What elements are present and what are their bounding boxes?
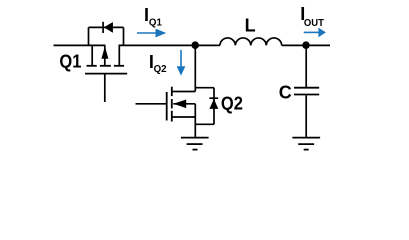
transistor Q2 (N-channel low-side MOSFET): [136, 87, 196, 137]
wire: right riser to drain rail: [123, 27, 125, 45]
C top plate: [294, 87, 319, 89]
svg-text:C: C: [279, 83, 292, 103]
Q2 drain connection: [172, 91, 196, 93]
wire: diode branch top: [89, 26, 124, 28]
Q2 channel bar (body): [171, 99, 173, 108]
body diode of Q2: [195, 88, 218, 125]
Q1 body lead: [104, 45, 106, 65]
Q2 gate lead: [136, 103, 167, 105]
wire: Q2 drain lead up to switch node: [194, 45, 196, 91]
node: switch-node junction dot: [191, 41, 199, 49]
wire: output node down to top plate: [305, 45, 307, 87]
transistor Q1 (P-channel high-side MOSFET, drawn horizontally): [85, 45, 127, 102]
Q1 channel bar (drain): [114, 65, 124, 67]
label IQ1: [144, 5, 162, 29]
diode cathode bar: [102, 22, 104, 33]
label IOUT: [300, 4, 324, 29]
svg-text:Q2: Q2: [154, 63, 167, 75]
Q1 source stub: [91, 45, 93, 65]
wire: bottom plate to ground: [305, 95, 307, 136]
svg-text:Q2: Q2: [221, 93, 243, 113]
inductor L: [220, 38, 282, 45]
C bottom plate: [294, 94, 319, 96]
Q1 body arrow (points up, P-channel): [101, 46, 108, 58]
Q2 channel bar (source): [171, 111, 173, 122]
ground (output capacitor): [292, 138, 320, 150]
body diode of Q1: [89, 22, 124, 46]
wire: switch-node rail from Q1 drain to inductor: [119, 44, 220, 46]
diode cathode bar: [209, 97, 218, 99]
diode triangle (points left): [104, 22, 113, 33]
Q2 gate bar: [166, 92, 168, 121]
Q2 body arrow (points into channel, N-channel): [173, 100, 186, 109]
label IQ2: [149, 52, 167, 75]
Q2 channel bar (drain): [171, 87, 173, 96]
diode triangle (points up): [209, 99, 218, 109]
current arrow IQ2 (blue, downward): [177, 50, 186, 76]
svg-text:L: L: [245, 15, 256, 35]
capacitor C: [294, 45, 319, 136]
Q2 source connection: [172, 116, 196, 118]
Q2 body lead: [173, 103, 195, 105]
svg-text:Q1: Q1: [59, 51, 81, 71]
Q1 gate bar: [85, 73, 127, 75]
Q1 gate lead: [104, 74, 106, 102]
node: output junction dot: [302, 41, 310, 49]
svg-text:OUT: OUT: [304, 17, 325, 29]
Q1 drain stub: [118, 45, 120, 65]
wire: Q2 body/source down-lead to ground: [194, 104, 196, 137]
ground (Q2 source): [181, 138, 209, 150]
svg-text:Q1: Q1: [149, 16, 162, 28]
wire: diode branch bottom: [195, 123, 214, 125]
current arrow IOUT (blue, rightward): [304, 28, 326, 38]
wire: left riser from source rail: [88, 27, 90, 45]
wire: diode branch vertical: [213, 88, 215, 125]
Q1 channel bar (source): [87, 65, 97, 67]
wire: diode branch top: [195, 87, 214, 89]
current arrow IQ1 (blue, rightward): [137, 29, 166, 38]
Q1 channel bar (body): [100, 65, 111, 67]
wire: inductor to output node: [282, 44, 330, 46]
wire: input rail to Q1 source side: [54, 44, 106, 46]
